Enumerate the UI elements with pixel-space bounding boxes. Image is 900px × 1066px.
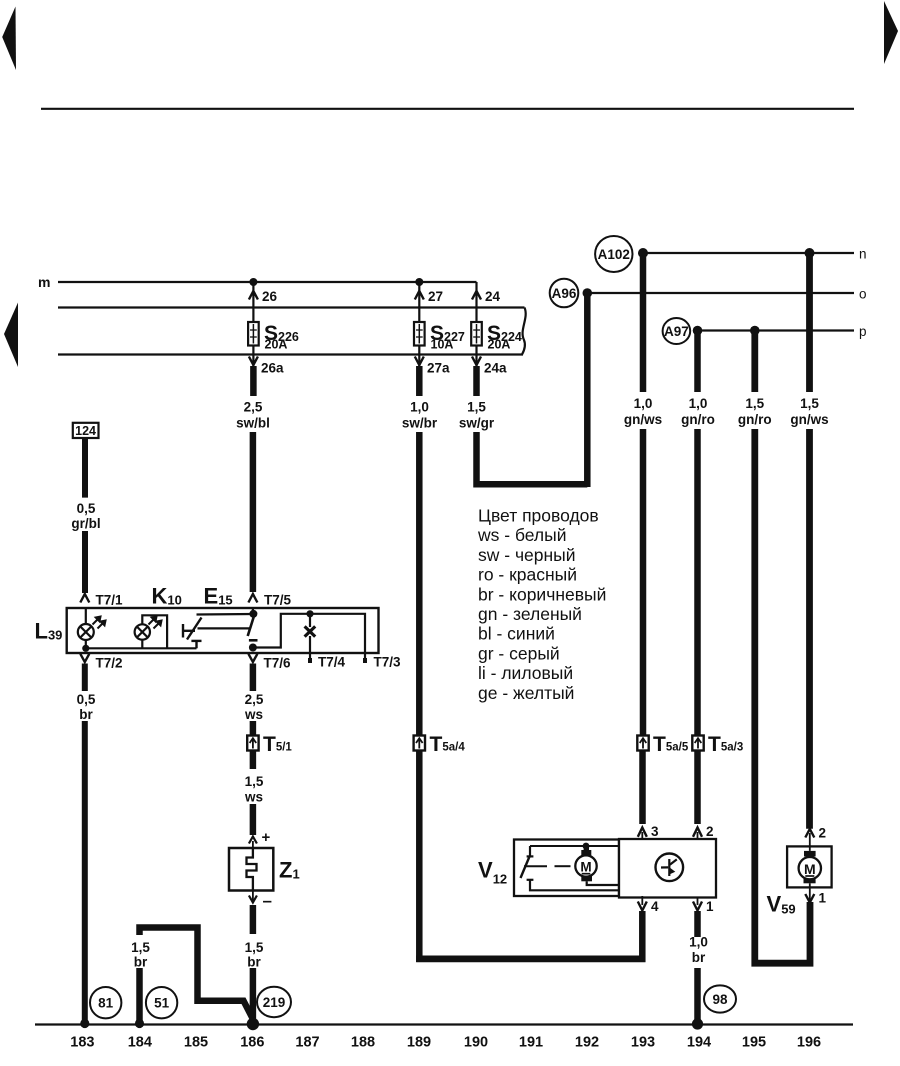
lamp L39 emission arrows [93, 617, 106, 629]
svg-text:24: 24 [485, 289, 501, 304]
wire 0,5 br (track 183, T7/2 to ground 183) [82, 664, 88, 1022]
svg-text:26: 26 [262, 289, 278, 304]
svg-text:1: 1 [819, 891, 827, 906]
current track ruler [70, 1035, 821, 1051]
svg-text:1: 1 [706, 899, 714, 914]
V12 internal feed line [530, 845, 619, 847]
svg-text:gn/ws: gn/ws [624, 412, 662, 427]
svg-text:T7/4: T7/4 [318, 655, 346, 670]
node n / track 196 junction [805, 248, 815, 258]
svg-text:ro - красный: ro - красный [478, 565, 577, 585]
ground point circle 51 [146, 987, 177, 1018]
ground point circle 81 [90, 987, 121, 1018]
svg-text:10A: 10A [431, 338, 454, 352]
switch E15 main lower contact [249, 639, 258, 642]
wire V12 pin 4 to junction bar [639, 911, 646, 962]
svg-text:183: 183 [70, 1035, 94, 1051]
svg-text:o: o [859, 287, 867, 302]
fuse panel bottom edge [58, 353, 523, 355]
connector T5a/3 [692, 736, 703, 751]
V12 blower motor M [575, 847, 619, 885]
svg-text:br: br [692, 950, 706, 965]
svg-text:gr/bl: gr/bl [71, 516, 100, 531]
svg-text:gn/ro: gn/ro [681, 412, 715, 427]
V12 pin 2 [693, 828, 702, 837]
switch E15 linkage double lines [197, 614, 254, 628]
top rule [41, 108, 854, 110]
node V12 motor feed [583, 843, 590, 850]
svg-text:194: 194 [687, 1035, 711, 1051]
connector T5/1 [247, 736, 258, 751]
svg-text:4: 4 [651, 899, 659, 914]
wire T7/5 into switch [252, 608, 254, 614]
svg-text:1,0: 1,0 [634, 396, 653, 411]
relay block L39 / K10 / E15 housing [67, 608, 379, 653]
svg-text:191: 191 [519, 1035, 543, 1051]
nav arrow left-middle [4, 303, 18, 368]
svg-text:gn/ro: gn/ro [738, 412, 772, 427]
svg-text:193: 193 [631, 1035, 655, 1051]
svg-text:br: br [247, 955, 261, 970]
fuse S224 with pins 24/24a [471, 282, 522, 376]
switch E15 main blade [248, 616, 254, 636]
svg-text:–: – [263, 891, 272, 910]
node T7/6 [249, 644, 257, 652]
ground point circle 219 [257, 987, 291, 1017]
wire 0,5 gr/bl (track 183, 124 to T7/1) [82, 438, 88, 593]
svg-text:189: 189 [407, 1035, 431, 1051]
bus line m [58, 281, 477, 283]
V59 motor M [799, 851, 821, 883]
svg-text:sw/br: sw/br [402, 416, 438, 431]
node A97/p junction [693, 326, 703, 336]
pin T7/6 [248, 654, 257, 662]
svg-text:gn - зеленый: gn - зеленый [478, 604, 582, 624]
svg-text:27: 27 [428, 289, 443, 304]
svg-text:192: 192 [575, 1035, 599, 1051]
svg-text:2,5: 2,5 [245, 692, 264, 707]
svg-text:190: 190 [464, 1035, 488, 1051]
svg-text:p: p [859, 324, 867, 339]
V59 pin 2 [809, 833, 811, 851]
pin stub T7/3 [363, 658, 367, 663]
wire colour legend [477, 506, 606, 703]
svg-text:0,5: 0,5 [77, 501, 96, 516]
ground point circle 98 [704, 985, 736, 1012]
fuse panel top edge [58, 306, 525, 308]
ground terminal dot 186 [247, 1018, 259, 1030]
internal bus wire [86, 647, 197, 649]
svg-text:M: M [580, 860, 591, 875]
svg-text:196: 196 [797, 1035, 821, 1051]
svg-text:sw - черный: sw - черный [478, 545, 576, 565]
svg-text:1,5: 1,5 [745, 396, 764, 411]
svg-text:ws: ws [244, 707, 263, 722]
switch E15 blade left [187, 618, 202, 640]
heater element Z1 [229, 848, 273, 891]
svg-text:2,5: 2,5 [244, 400, 263, 415]
lamp K10 [135, 615, 168, 648]
svg-text:1,0: 1,0 [689, 396, 708, 411]
node L39 lamp to bus bar [82, 645, 89, 652]
svg-text:T7/6: T7/6 [264, 656, 292, 671]
svg-text:51: 51 [154, 996, 170, 1011]
wire 1,0 br (track 194, V12 pin 1 to ground 98) [694, 911, 701, 1022]
svg-text:T7/5: T7/5 [264, 593, 292, 608]
radiator fan V59 housing [787, 846, 832, 887]
connector T5a/4 [414, 736, 425, 751]
svg-text:T7/3: T7/3 [374, 655, 402, 670]
pin T7/1 [80, 594, 89, 603]
svg-text:1,5: 1,5 [245, 940, 264, 955]
svg-text:br: br [79, 707, 93, 722]
node A102/n junction [638, 248, 648, 258]
V12 pin 1 [697, 898, 699, 906]
svg-text:1,5: 1,5 [800, 396, 819, 411]
wire 1,5 ws (track 186, T5/1 to Z1) [250, 751, 257, 836]
svg-text:Цвет проводов: Цвет проводов [478, 506, 599, 526]
svg-text:gr - серый: gr - серый [478, 643, 560, 663]
svg-text:1,5: 1,5 [467, 400, 486, 415]
junction on m at track 189 [415, 278, 423, 286]
node p / track 195 junction [750, 326, 760, 336]
wire 2,5 sw/bl (track 186, fuse S226 to T7/5) [250, 366, 257, 592]
svg-text:A96: A96 [552, 286, 577, 301]
svg-text:20A: 20A [488, 338, 511, 352]
svg-text:A97: A97 [664, 324, 689, 339]
svg-text:26a: 26a [261, 361, 284, 376]
node diode branch [306, 610, 313, 617]
V12 switch blade [521, 857, 530, 879]
svg-text:T7/1: T7/1 [96, 593, 124, 608]
connector 124 [73, 423, 99, 438]
connector circle A97 [663, 318, 691, 344]
wire 2,5 ws (track 186, T7/6 to T5/1) [250, 664, 257, 736]
svg-text:219: 219 [263, 995, 286, 1010]
V12 switch contact bottom [527, 880, 619, 891]
fresh air blower switch unit V12 housing left [514, 840, 619, 897]
wire 1,5 sw/gr (track 190, fuse S224 to A96 wire) [477, 366, 588, 484]
svg-text:bl - синий: bl - синий [478, 624, 555, 644]
wire 1,5 gn/ro (track 195, p line to V59 pin 1) [755, 331, 810, 964]
svg-text:A102: A102 [598, 247, 630, 262]
svg-text:24a: 24a [484, 361, 507, 376]
svg-text:81: 81 [98, 996, 114, 1011]
svg-text:195: 195 [742, 1035, 766, 1051]
V59 pin 1 [809, 883, 811, 901]
svg-text:27a: 27a [427, 361, 450, 376]
svg-text:2: 2 [819, 826, 827, 841]
svg-text:ws: ws [244, 790, 263, 805]
lamp L39 [78, 608, 94, 648]
Z1 plus pin [249, 837, 257, 844]
svg-text:187: 187 [295, 1035, 319, 1051]
wire 1,5 br (track 186, Z1 to ground 186) [250, 905, 257, 1022]
junction on m at track 186 [249, 278, 257, 286]
switch E15 lower contact T [191, 641, 201, 648]
connector circle A96 [550, 279, 579, 308]
svg-text:T7/2: T7/2 [96, 656, 123, 671]
svg-text:sw/bl: sw/bl [236, 416, 270, 431]
V12 fan symbol [656, 854, 684, 882]
V12 switch contact top [527, 846, 534, 856]
wire 1,0 gn/ws (track 193, A102 to V12 pin 3) [639, 253, 646, 824]
svg-text:M: M [804, 861, 816, 877]
fuse panel torn right edge [522, 308, 526, 355]
node switch pivot [249, 610, 257, 618]
svg-text:124: 124 [75, 424, 96, 438]
connector circle A102 [595, 236, 632, 272]
svg-text:1,0: 1,0 [410, 400, 429, 415]
pin stub T7/4 [308, 658, 312, 663]
svg-text:li - лиловый: li - лиловый [478, 663, 573, 683]
Z1 minus pin [252, 891, 254, 902]
svg-text:1,5: 1,5 [131, 940, 150, 955]
connector T5a/5 [637, 736, 648, 751]
svg-text:1,0: 1,0 [689, 935, 708, 950]
svg-text:br - коричневый: br - коричневый [478, 584, 606, 604]
ground terminal dot 183 [80, 1019, 89, 1028]
bus line p [698, 329, 855, 331]
ground terminal dot 194 [692, 1018, 703, 1029]
wire A96 drop (track 191) [584, 293, 591, 487]
svg-text:ge - желтый: ge - желтый [478, 683, 574, 703]
svg-text:br: br [134, 955, 148, 970]
wire 1,0 gn/ro (track 194, A97 to V12 pin 2) [694, 331, 701, 825]
fresh air blower switch unit V12 housing right [619, 839, 716, 898]
svg-text:gn/ws: gn/ws [790, 412, 828, 427]
wire 1,5 gn/ws (track 196, n line to V59 pin 2) [806, 253, 813, 829]
wire 1,5 br (track 184 loop to ground 186) [140, 928, 253, 1022]
bus line n [643, 252, 854, 254]
bus line o [587, 292, 854, 294]
wire 1,0 sw/br (track 189, fuse S227 down) [416, 366, 423, 962]
node A96/o junction [583, 288, 593, 298]
svg-text:sw/gr: sw/gr [459, 416, 495, 431]
pin T7/5 [248, 594, 257, 603]
fuse S226 with pins 26/26a [248, 282, 299, 376]
V12 actuating dash line [524, 865, 571, 867]
svg-text:n: n [859, 247, 867, 262]
svg-text:0,5: 0,5 [77, 692, 96, 707]
lamp K10 emission arrows [149, 617, 162, 629]
ground rail [35, 1023, 853, 1025]
svg-text:m: m [38, 274, 50, 290]
svg-text:186: 186 [240, 1035, 264, 1051]
svg-text:2: 2 [706, 824, 714, 839]
lamp element X to T7/4 [305, 614, 316, 662]
svg-text:1,5: 1,5 [245, 774, 264, 789]
nav arrow top-right [884, 1, 898, 64]
wire node to diode branch [253, 614, 365, 662]
svg-text:184: 184 [128, 1035, 152, 1051]
pin T7/2 [80, 654, 89, 662]
svg-text:185: 185 [184, 1035, 208, 1051]
switch E15 fixed contact left [183, 624, 195, 638]
V12 pin 4 [641, 896, 643, 905]
nav arrow top-left [2, 7, 16, 71]
svg-text:3: 3 [651, 824, 659, 839]
svg-text:188: 188 [351, 1035, 375, 1051]
svg-text:ws - белый: ws - белый [477, 525, 566, 545]
fuse S227 with pins 27/27a [414, 282, 465, 376]
svg-text:98: 98 [712, 992, 728, 1007]
junction bar track 189 to 193 [416, 956, 645, 963]
svg-text:+: + [262, 829, 271, 846]
V12 pin 3 [638, 828, 647, 837]
ground terminal dot 184 [135, 1019, 144, 1028]
svg-text:20A: 20A [265, 338, 288, 352]
